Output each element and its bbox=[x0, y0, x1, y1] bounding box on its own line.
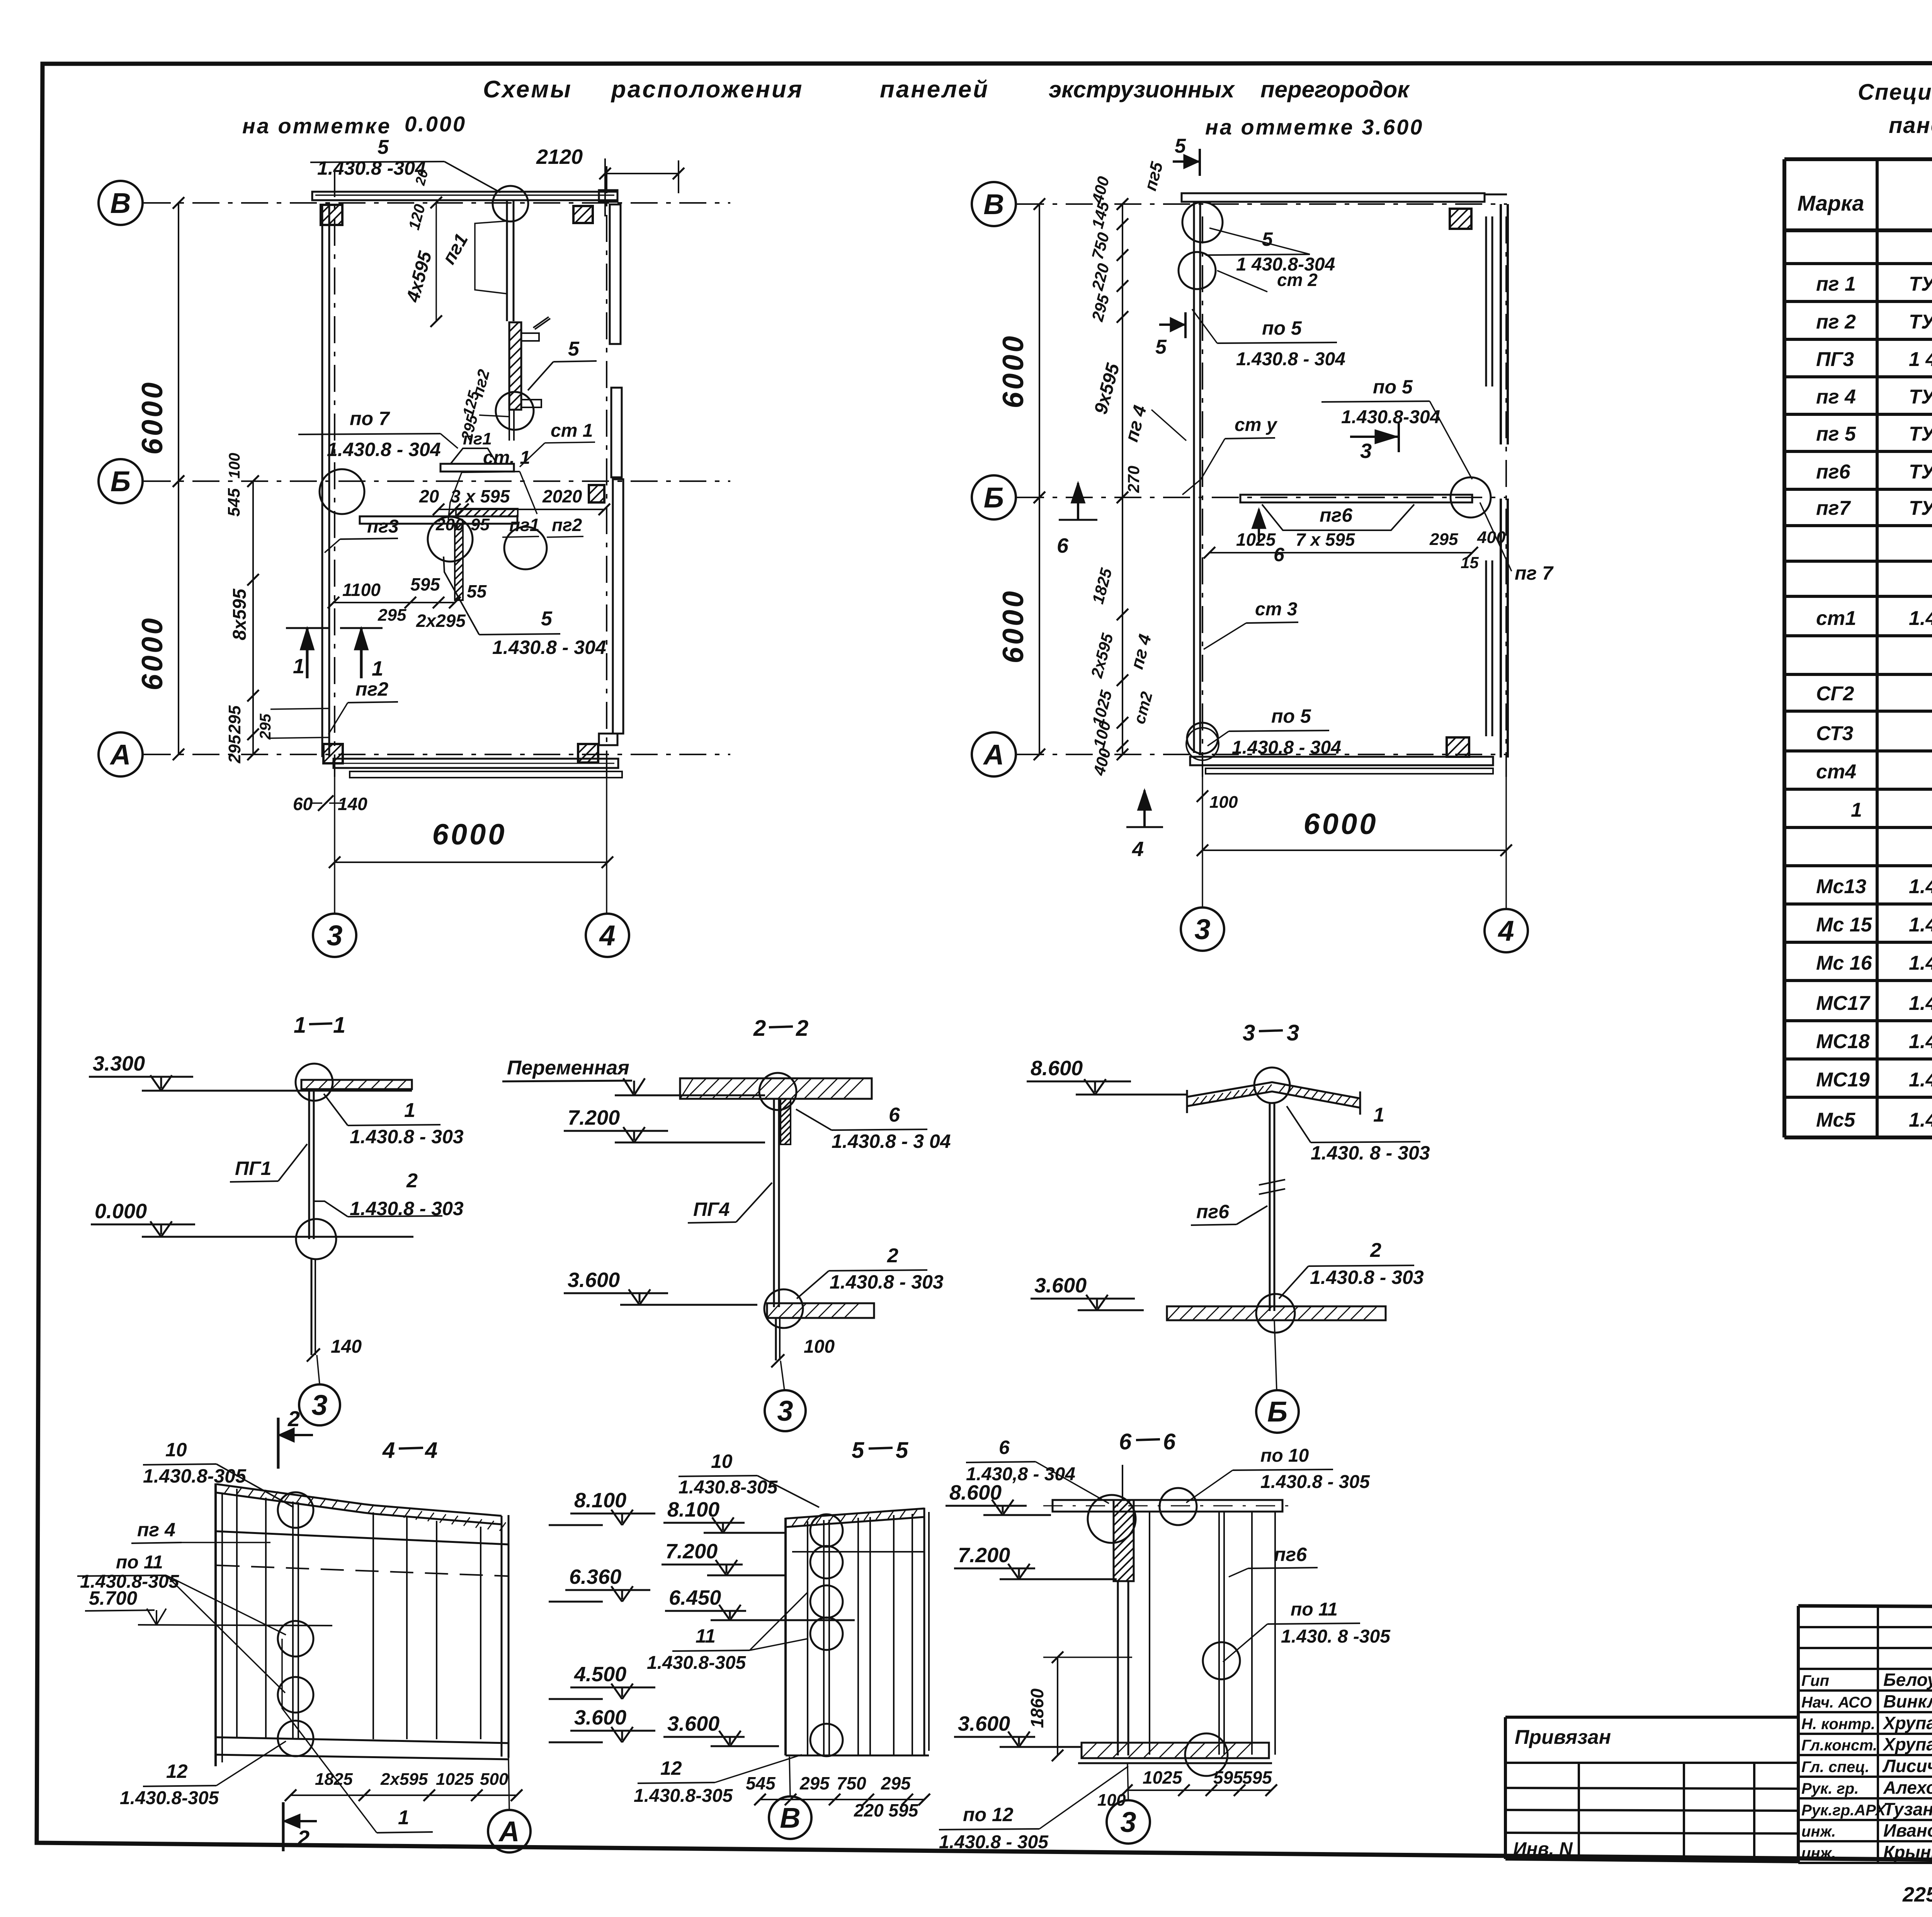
svg-text:295: 295 bbox=[799, 1773, 830, 1793]
svg-text:270: 270 bbox=[1124, 466, 1143, 493]
svg-text:пг7: пг7 bbox=[1816, 497, 1851, 519]
svg-text:Белоус: Белоус bbox=[1883, 1670, 1932, 1690]
section 6-6 node circles top bbox=[1088, 1495, 1136, 1543]
svg-text:0.000: 0.000 bbox=[405, 112, 466, 136]
svg-text:1.430.8 - 305: 1.430.8 - 305 bbox=[939, 1832, 1049, 1852]
svg-text:1 430.8 - 314: 1 430.8 - 314 bbox=[1909, 348, 1932, 371]
section 1-1 top node circle bbox=[296, 1064, 333, 1101]
section 5-5 circle В bbox=[769, 1796, 811, 1839]
section 1-1 circle 3 bbox=[299, 1384, 340, 1425]
plan2 Б wall bar bbox=[1240, 495, 1472, 502]
svg-text:ст. 1: ст. 1 bbox=[483, 448, 530, 468]
plan1 node circle Б/axis3 bbox=[320, 469, 364, 514]
section 5-5 node circles bbox=[810, 1514, 843, 1547]
plan1 dim row 1100/595/55 bbox=[333, 602, 455, 603]
svg-text:ТУ 21-24-97-82.: ТУ 21-24-97-82. bbox=[1909, 423, 1932, 445]
svg-text:2х295: 2х295 bbox=[416, 611, 466, 631]
svg-text:6: 6 bbox=[999, 1437, 1010, 1458]
svg-text:3: 3 bbox=[777, 1395, 793, 1427]
svg-text:8х595: 8х595 bbox=[230, 588, 250, 640]
svg-text:Б: Б bbox=[1267, 1396, 1287, 1428]
svg-text:1025: 1025 bbox=[1143, 1767, 1183, 1788]
plan2 axis line B bbox=[1017, 203, 1507, 205]
svg-text:1.430.8 - 311: 1.430.8 - 311 bbox=[1909, 1030, 1932, 1053]
svg-text:1025: 1025 bbox=[1236, 529, 1276, 550]
title block roles grid bbox=[1877, 1606, 1879, 1864]
section 1-1 lower panel line bbox=[311, 1259, 313, 1355]
plan2 right inner wall strips bbox=[1485, 216, 1487, 386]
svg-text:0.000: 0.000 bbox=[95, 1200, 147, 1223]
svg-text:295: 295 bbox=[378, 606, 406, 625]
svg-text:пг 5: пг 5 bbox=[1816, 423, 1856, 445]
svg-text:В: В bbox=[110, 187, 131, 219]
svg-text:пг6: пг6 bbox=[1320, 504, 1353, 526]
svg-text:8.100: 8.100 bbox=[574, 1489, 626, 1512]
section 1-1 lower node circle bbox=[296, 1219, 336, 1259]
plan1 axis line 4 vertical bbox=[606, 166, 607, 777]
svg-text:7.200: 7.200 bbox=[958, 1544, 1010, 1567]
svg-text:Мс 15: Мс 15 bbox=[1816, 914, 1872, 936]
svg-text:220 595: 220 595 bbox=[854, 1800, 919, 1820]
svg-text:1100: 1100 bbox=[342, 580, 381, 600]
svg-text:1.430. 8 -305: 1.430. 8 -305 bbox=[1281, 1626, 1391, 1647]
section 6-6 bottom node circle bbox=[1185, 1733, 1228, 1776]
svg-text:1.430.8 - 303: 1.430.8 - 303 bbox=[1310, 1267, 1424, 1288]
svg-text:2: 2 bbox=[406, 1170, 418, 1192]
svg-text:Инв. N: Инв. N bbox=[1513, 1839, 1573, 1859]
svg-text:инж.: инж. bbox=[1801, 1845, 1836, 1862]
svg-text:5: 5 bbox=[1175, 135, 1186, 157]
specification table grid bbox=[1784, 157, 1932, 161]
svg-text:295: 295 bbox=[225, 705, 244, 734]
svg-text:1.430.8-305: 1.430.8-305 bbox=[120, 1788, 219, 1808]
svg-text:3: 3 bbox=[311, 1389, 327, 1421]
svg-text:1.430.8-305: 1.430.8-305 bbox=[143, 1465, 247, 1487]
plan2 section marker 5 mid bbox=[1159, 323, 1185, 326]
svg-text:2120: 2120 bbox=[536, 145, 583, 169]
svg-text:Лисичкин: Лисичкин bbox=[1882, 1756, 1932, 1776]
plan2 dim row 1025/7x595/295/400 bbox=[1209, 552, 1472, 553]
svg-text:6000: 6000 bbox=[136, 380, 169, 455]
svg-text:5: 5 bbox=[568, 338, 580, 360]
svg-text:Привязан: Привязан bbox=[1515, 1726, 1611, 1748]
section 2-2 small hatched block bbox=[781, 1099, 791, 1144]
svg-text:пг2: пг2 bbox=[355, 678, 388, 700]
svg-text:12: 12 bbox=[660, 1757, 682, 1779]
plan1 column hatched B3 bbox=[321, 205, 342, 225]
svg-text:2: 2 bbox=[753, 1016, 766, 1041]
plan1 axis circle Б bbox=[99, 459, 143, 503]
svg-text:545: 545 bbox=[224, 488, 243, 517]
section 3-3 panel пг6 bbox=[1269, 1102, 1271, 1311]
svg-text:1.430.8-305: 1.430.8-305 bbox=[679, 1477, 778, 1498]
plan2 node circle mid lower bbox=[1186, 728, 1219, 760]
svg-text:12: 12 bbox=[166, 1760, 188, 1782]
section 6-6 vertical line top bbox=[1122, 1465, 1123, 1500]
svg-text:В: В bbox=[780, 1802, 800, 1834]
svg-text:Гл.конст.: Гл.конст. bbox=[1801, 1737, 1877, 1754]
svg-text:295: 295 bbox=[881, 1773, 911, 1793]
svg-text:5: 5 bbox=[541, 608, 553, 630]
svg-text:295: 295 bbox=[225, 735, 244, 764]
svg-text:595: 595 bbox=[410, 574, 440, 594]
svg-text:по 10: по 10 bbox=[1260, 1445, 1309, 1466]
section 1-1 panel пг1 bbox=[308, 1089, 310, 1239]
svg-text:6: 6 bbox=[1163, 1429, 1176, 1454]
plan2 left dim chain lower bbox=[1122, 497, 1123, 754]
plan1 dim 6000 В-Б bbox=[178, 203, 179, 481]
svg-text:6: 6 bbox=[1057, 534, 1069, 557]
svg-text:Хрупало: Хрупало bbox=[1882, 1713, 1932, 1733]
plan2 section marker 4 bottom bbox=[1143, 790, 1146, 827]
svg-text:20: 20 bbox=[419, 486, 439, 506]
svg-text:3.600: 3.600 bbox=[568, 1268, 620, 1292]
plan2 section marker 6 left bbox=[1077, 483, 1079, 520]
plan1 node circle Б-mid bbox=[428, 517, 473, 562]
svg-text:ПГ1: ПГ1 bbox=[235, 1158, 271, 1179]
section 4-4 node circles column bbox=[278, 1492, 313, 1528]
plan2 axis circle А bbox=[972, 732, 1016, 776]
svg-text:1.430.8 - 3 04: 1.430.8 - 3 04 bbox=[832, 1130, 951, 1152]
svg-text:1: 1 bbox=[1851, 799, 1862, 821]
svg-text:6000: 6000 bbox=[1303, 808, 1378, 841]
plan1 right outer wall strips bbox=[610, 204, 621, 344]
section 3-3 circle Б bbox=[1256, 1390, 1299, 1433]
svg-text:1.430.8 - 310: 1.430.8 - 310 bbox=[1909, 914, 1932, 936]
svg-text:ТУ21-24-82-81: ТУ21-24-82-81 bbox=[1909, 386, 1932, 408]
svg-text:Переменная: Переменная bbox=[507, 1057, 629, 1079]
section 6-6 dim 1860 bbox=[1057, 1657, 1058, 1755]
svg-text:1.430. 8 - 303: 1.430. 8 - 303 bbox=[1311, 1142, 1430, 1164]
svg-text:2: 2 bbox=[796, 1016, 808, 1041]
plan2 top wall bar bbox=[1182, 193, 1485, 202]
plan2 dim 6000 Б-А bbox=[1039, 497, 1040, 754]
svg-text:6: 6 bbox=[1119, 1429, 1132, 1454]
svg-text:4: 4 bbox=[599, 919, 615, 952]
svg-text:1: 1 bbox=[398, 1806, 409, 1829]
svg-text:3.600: 3.600 bbox=[574, 1706, 626, 1729]
plan1 partition hatched Г-piece bbox=[509, 322, 521, 410]
svg-text:140: 140 bbox=[338, 794, 367, 814]
section 4-4 panel field bbox=[216, 1484, 502, 1516]
svg-text:Хрупало: Хрупало bbox=[1882, 1734, 1932, 1754]
svg-text:4.500: 4.500 bbox=[574, 1663, 626, 1686]
svg-text:1.430.8-304: 1.430.8-304 bbox=[1341, 407, 1440, 427]
svg-text:по 12: по 12 bbox=[963, 1804, 1014, 1825]
plan1 column hatched B4 bbox=[573, 206, 593, 223]
svg-text:100: 100 bbox=[226, 453, 243, 479]
svg-text:4: 4 bbox=[1497, 915, 1514, 947]
svg-text:10: 10 bbox=[165, 1439, 187, 1461]
section 3-3 lower slab bbox=[1167, 1306, 1386, 1320]
svg-text:6: 6 bbox=[889, 1104, 900, 1126]
svg-text:Тузанов: Тузанов bbox=[1883, 1799, 1932, 1819]
svg-text:1.430.8 - 303: 1.430.8 - 303 bbox=[350, 1126, 464, 1147]
section 1-1 axis tail bbox=[317, 1355, 320, 1384]
svg-text:2020: 2020 bbox=[542, 486, 582, 506]
svg-text:А: А bbox=[109, 739, 131, 771]
svg-text:Мс 16: Мс 16 bbox=[1816, 952, 1872, 974]
plan1 А wall bars bbox=[333, 759, 618, 768]
svg-text:2х595: 2х595 bbox=[380, 1770, 428, 1789]
svg-text:6000: 6000 bbox=[136, 616, 169, 690]
section 5-5 bottom dims bbox=[760, 1799, 924, 1800]
plan2 axis line Б bbox=[1017, 497, 1507, 498]
plan1 section marker 1 (two arrows up) bbox=[306, 628, 309, 678]
svg-text:ТУ 21-24-97-82: ТУ 21-24-97-82 bbox=[1909, 311, 1932, 333]
svg-text:расположения: расположения bbox=[611, 76, 803, 103]
svg-text:8.600: 8.600 bbox=[1031, 1057, 1083, 1080]
plan2 axis circle 3 bbox=[1181, 907, 1224, 951]
svg-text:1.430.8 - 311: 1.430.8 - 311 bbox=[1909, 992, 1932, 1015]
svg-text:1.430.8 - 308: 1.430.8 - 308 bbox=[1909, 875, 1932, 898]
svg-text:1: 1 bbox=[404, 1099, 415, 1122]
plan1 axis line B bbox=[144, 202, 730, 204]
svg-text:на отметке 3.600: на отметке 3.600 bbox=[1205, 115, 1423, 139]
plan2 пг6 trapezoid bbox=[1262, 504, 1414, 530]
plan1 node circle Б-mid2 bbox=[504, 527, 547, 569]
svg-text:ТУ 21-24-82-81: ТУ 21-24-82-81 bbox=[1909, 461, 1932, 483]
svg-text:1.430.8 - 304: 1.430.8 - 304 bbox=[492, 637, 606, 658]
plan1 dim 2120 top bbox=[605, 173, 679, 174]
svg-text:Схемы: Схемы bbox=[483, 76, 572, 103]
svg-text:пг1: пг1 bbox=[509, 515, 539, 535]
plan1 axis line 3 vertical bbox=[334, 170, 335, 777]
svg-text:3.300: 3.300 bbox=[93, 1052, 145, 1075]
plan1 left secondary dim chain bbox=[252, 481, 254, 754]
svg-text:1.430.8 - 313: 1.430.8 - 313 bbox=[1909, 1069, 1932, 1091]
svg-text:инж.: инж. bbox=[1801, 1823, 1836, 1840]
title block: privyazan table bbox=[1505, 1716, 1798, 1719]
svg-text:4: 4 bbox=[1132, 838, 1144, 861]
svg-text:295: 295 bbox=[1429, 530, 1458, 549]
svg-text:Спецификация к схемам располож: Спецификация к схемам расположения bbox=[1858, 80, 1932, 105]
plan2 partition wall left (axis 3) bbox=[1193, 202, 1195, 753]
svg-text:А: А bbox=[498, 1815, 519, 1847]
svg-text:3: 3 bbox=[1360, 439, 1372, 463]
plan2 axis circle B bbox=[972, 182, 1016, 226]
svg-text:ст у: ст у bbox=[1235, 415, 1278, 435]
svg-text:ПГ4: ПГ4 bbox=[693, 1199, 730, 1220]
section 2-2 panel ПГ4 bbox=[773, 1099, 775, 1307]
svg-text:500: 500 bbox=[480, 1770, 509, 1789]
section 2-2 top slab bbox=[680, 1078, 872, 1099]
svg-text:экструзионных: экструзионных bbox=[1049, 77, 1235, 102]
svg-text:1860: 1860 bbox=[1027, 1688, 1047, 1728]
svg-text:1: 1 bbox=[1373, 1104, 1384, 1126]
svg-text:6000: 6000 bbox=[997, 589, 1030, 663]
title block outer bbox=[1798, 1606, 1932, 1609]
section 4-4 bottom dims bbox=[291, 1794, 517, 1796]
svg-text:3: 3 bbox=[1194, 913, 1210, 945]
plan1 partition wall on axis 4 bbox=[506, 201, 508, 321]
section 3-3 apex node circle bbox=[1254, 1067, 1290, 1103]
svg-text:750: 750 bbox=[837, 1773, 866, 1793]
section 2-2 dim 100 bbox=[771, 1354, 784, 1367]
section 6-6 node circle mid bbox=[1203, 1642, 1240, 1679]
svg-text:1.430.8-305: 1.430.8-305 bbox=[647, 1653, 747, 1673]
plan1 Б wall lower bar bbox=[360, 516, 517, 524]
svg-text:Гл. спец.: Гл. спец. bbox=[1801, 1759, 1869, 1776]
svg-text:1.430.8 - 304: 1.430.8 - 304 bbox=[1232, 737, 1341, 758]
svg-text:3 х 595: 3 х 595 bbox=[451, 486, 510, 506]
plan2 axis line А bbox=[1017, 754, 1507, 755]
svg-text:6000: 6000 bbox=[997, 334, 1030, 408]
svg-text:Нач. АСО: Нач. АСО bbox=[1801, 1694, 1872, 1711]
plan1 axis line Б bbox=[144, 480, 730, 482]
plan1 axis circle А bbox=[99, 732, 143, 776]
section 3-3 break marks bbox=[1259, 1180, 1285, 1185]
svg-text:100: 100 bbox=[1209, 793, 1238, 812]
svg-text:пг2: пг2 bbox=[552, 515, 582, 535]
plan1 dim 6000 bottom 3-4 bbox=[335, 861, 607, 863]
svg-text:60: 60 bbox=[293, 794, 313, 814]
svg-text:1.430.8 - 303: 1.430.8 - 303 bbox=[350, 1198, 464, 1219]
plan1 пг1 trapezoid symbol bbox=[451, 448, 497, 464]
plan1 left wall bbox=[321, 204, 323, 757]
plan2 axis 3 vertical bbox=[1202, 216, 1203, 777]
svg-text:ст4: ст4 bbox=[1816, 761, 1856, 783]
svg-text:Марка: Марка bbox=[1798, 191, 1864, 215]
plan1 right wall caps bbox=[599, 190, 617, 202]
svg-text:Гип: Гип bbox=[1801, 1672, 1829, 1689]
svg-text:55: 55 bbox=[467, 581, 487, 601]
plan1 node circle at top wall joint bbox=[493, 186, 528, 221]
svg-text:100: 100 bbox=[804, 1336, 835, 1357]
svg-text:по 5: по 5 bbox=[1373, 376, 1413, 398]
svg-text:595: 595 bbox=[1242, 1767, 1272, 1788]
svg-text:1825: 1825 bbox=[315, 1770, 353, 1789]
plan1 column hatched А4 bbox=[578, 744, 598, 763]
svg-text:Крынкина: Крынкина bbox=[1883, 1842, 1932, 1862]
svg-text:МС17: МС17 bbox=[1816, 992, 1871, 1015]
svg-text:2: 2 bbox=[1370, 1239, 1381, 1262]
plan2 dim 6000 bottom bbox=[1202, 850, 1506, 851]
section 6-6 circle 3 bbox=[1107, 1800, 1150, 1844]
svg-text:пг3: пг3 bbox=[367, 516, 399, 537]
plan2 axis circle 4 bbox=[1485, 909, 1528, 952]
plan1 axis line А bbox=[144, 754, 730, 755]
plan2 dim 6000 В-Б bbox=[1039, 204, 1040, 497]
plan1 column hatched А3 bbox=[323, 744, 343, 763]
section 6-6 bottom dims bbox=[1127, 1789, 1271, 1791]
svg-text:Винклер: Винклер bbox=[1883, 1691, 1932, 1711]
svg-text:1: 1 bbox=[294, 1013, 306, 1038]
svg-text:1.430.8 - 307: 1.430.8 - 307 bbox=[1909, 1109, 1932, 1131]
svg-text:6: 6 bbox=[1274, 544, 1285, 565]
svg-text:1025: 1025 bbox=[436, 1770, 474, 1789]
svg-text:ст 1: ст 1 bbox=[551, 421, 593, 441]
svg-text:по 7: по 7 bbox=[350, 408, 390, 429]
svg-text:6.360: 6.360 bbox=[569, 1565, 621, 1588]
svg-text:Б: Б bbox=[984, 482, 1004, 514]
plan2 right wall bbox=[1500, 204, 1502, 444]
plan2 column hatched А right bbox=[1447, 737, 1469, 757]
plan2 left dim chain upper bbox=[1122, 204, 1123, 497]
section 1-1 dim 140 bbox=[307, 1348, 320, 1362]
svg-text:по 11: по 11 bbox=[1291, 1599, 1338, 1620]
svg-text:на отметке: на отметке bbox=[242, 114, 391, 138]
svg-text:1.430.8 - 310: 1.430.8 - 310 bbox=[1909, 952, 1932, 974]
svg-text:6000: 6000 bbox=[432, 818, 507, 851]
svg-text:СТ3: СТ3 bbox=[1816, 722, 1853, 745]
plan1 axis circle B bbox=[99, 181, 143, 225]
svg-text:1.430.8 -304: 1.430.8 -304 bbox=[317, 157, 426, 179]
svg-text:Н. контр.: Н. контр. bbox=[1801, 1716, 1875, 1733]
svg-text:МС18: МС18 bbox=[1816, 1030, 1870, 1053]
plan1 axis circle 3 bbox=[313, 914, 356, 957]
section 2-2 lower node circle bbox=[764, 1289, 803, 1328]
svg-text:пг6: пг6 bbox=[1274, 1544, 1307, 1565]
svg-text:15: 15 bbox=[1461, 553, 1479, 572]
section 2-2 circle 3 bbox=[765, 1390, 806, 1431]
svg-text:4: 4 bbox=[425, 1438, 437, 1463]
svg-text:10: 10 bbox=[711, 1451, 733, 1472]
svg-text:5: 5 bbox=[1262, 228, 1273, 250]
svg-text:3: 3 bbox=[327, 919, 342, 952]
section 6-6 inner studs bbox=[1149, 1512, 1150, 1755]
plan2 section marker 3 upper bbox=[1350, 436, 1399, 438]
section 3-3 lower node circle bbox=[1256, 1294, 1295, 1333]
svg-text:1: 1 bbox=[372, 657, 383, 680]
svg-text:Иванов: Иванов bbox=[1883, 1820, 1932, 1840]
svg-text:по 5: по 5 bbox=[1262, 317, 1302, 339]
svg-text:545: 545 bbox=[746, 1773, 776, 1793]
svg-text:Рук. гр.: Рук. гр. bbox=[1801, 1780, 1859, 1797]
svg-text:пг 1: пг 1 bbox=[1816, 273, 1856, 295]
svg-text:5: 5 bbox=[378, 136, 389, 158]
section 2-2 lower slab bbox=[767, 1303, 874, 1318]
svg-text:1.430.8 - 305: 1.430.8 - 305 bbox=[1260, 1472, 1370, 1492]
plan2 А wall bars bbox=[1190, 757, 1493, 765]
svg-text:СГ2: СГ2 bbox=[1816, 683, 1854, 705]
svg-text:Алехова: Алехова bbox=[1883, 1777, 1932, 1798]
svg-text:Мс13: Мс13 bbox=[1816, 875, 1866, 898]
plan1 top wall panel bar bbox=[312, 192, 617, 200]
svg-text:5: 5 bbox=[852, 1438, 864, 1463]
svg-text:6.450: 6.450 bbox=[669, 1586, 721, 1609]
plan1 partition below 5 bbox=[509, 410, 510, 441]
svg-text:3: 3 bbox=[1120, 1806, 1136, 1838]
svg-text:295: 295 bbox=[257, 713, 274, 740]
svg-text:7.200: 7.200 bbox=[568, 1106, 620, 1129]
svg-text:2: 2 bbox=[297, 1826, 310, 1850]
section 5-5 panel field bbox=[786, 1508, 924, 1519]
svg-text:по 11: по 11 bbox=[116, 1552, 163, 1573]
section 4-4 circle А bbox=[488, 1810, 531, 1852]
section 6-6 hatched column bbox=[1114, 1500, 1134, 1581]
svg-text:пг 7: пг 7 bbox=[1515, 562, 1554, 584]
section 2-2 axis tail bbox=[781, 1361, 784, 1390]
section 3-3 axis tail bbox=[1274, 1320, 1277, 1390]
plan1 Б wall hatched L-bar bbox=[456, 509, 518, 516]
svg-text:1.430.8 - 304: 1.430.8 - 304 bbox=[327, 439, 441, 460]
svg-text:пг 4: пг 4 bbox=[137, 1519, 175, 1541]
svg-text:3: 3 bbox=[1287, 1020, 1299, 1045]
section 1-1 marker 2 bbox=[277, 1418, 280, 1469]
svg-text:А: А bbox=[983, 739, 1004, 771]
plan2 column hatched top right bbox=[1450, 209, 1471, 229]
plan1 dim 295 left bbox=[270, 737, 328, 738]
svg-text:5.700: 5.700 bbox=[89, 1587, 137, 1609]
svg-text:11: 11 bbox=[696, 1625, 716, 1647]
section 2-2 top node circle bbox=[759, 1073, 796, 1110]
svg-text:ТУ 21-24-82-81: ТУ 21-24-82-81 bbox=[1909, 273, 1932, 295]
svg-text:2: 2 bbox=[887, 1245, 898, 1267]
svg-text:по 5: по 5 bbox=[1271, 705, 1311, 727]
svg-text:95: 95 bbox=[471, 515, 490, 534]
svg-text:ст1: ст1 bbox=[1816, 607, 1856, 630]
